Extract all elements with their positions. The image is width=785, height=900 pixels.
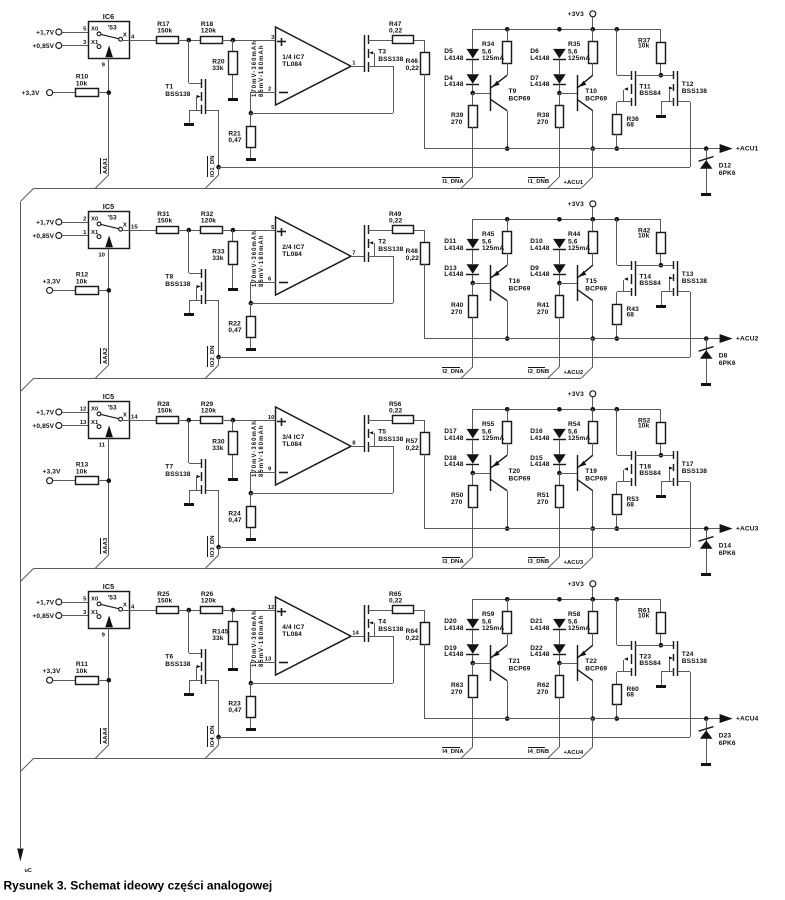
transistor T15 BCP69 [559, 265, 607, 301]
wire +3,3V to R12 [53, 290, 76, 292]
svg-text:0,22: 0,22 [389, 407, 403, 414]
svg-text:R45: R45 [482, 231, 495, 238]
net label AAA3 [101, 537, 109, 554]
net label I4_DNA [442, 748, 464, 755]
wire AAA2 from IC5 pin 10 to bus [96, 248, 109, 378]
svg-text:X: X [123, 33, 127, 39]
svg-text:+1,7V: +1,7V [36, 220, 54, 227]
svg-text:R64: R64 [406, 628, 419, 635]
svg-text:120k: 120k [201, 407, 216, 414]
junction output rail/T9 [505, 146, 510, 151]
transistor T17 BSS138 [661, 451, 707, 495]
IC7 pin numbers [265, 605, 360, 663]
resistor R54 5,6 125mA [568, 409, 598, 455]
junction rail/T14 [615, 217, 620, 222]
svg-text:270: 270 [537, 309, 549, 316]
ground under T13 [656, 305, 666, 308]
svg-text:D12: D12 [719, 163, 732, 170]
wire +ACU3 tap to bus [581, 529, 592, 568]
svg-text:14: 14 [131, 415, 138, 421]
wire X output to R17 [123, 420, 156, 422]
bus arrow to uC [17, 849, 23, 862]
ground under T17 [656, 495, 666, 498]
svg-text:R34: R34 [482, 41, 495, 48]
junction R52/T18/T17 [659, 453, 664, 458]
svg-text:AAA3: AAA3 [103, 537, 109, 554]
transistor T11 BSS84 [617, 29, 662, 114]
wire +0,85V to IC pin X1 [62, 45, 88, 47]
svg-text:TL084: TL084 [282, 631, 302, 638]
wire rail to D5 [472, 29, 474, 49]
junction output rail/T19 [591, 526, 596, 531]
svg-text:0,22: 0,22 [406, 65, 420, 72]
svg-text:BCP69: BCP69 [585, 285, 607, 292]
wire R17 to R18 [178, 610, 200, 612]
junction output rail/R60 [615, 716, 620, 721]
wire R57 to output rail [424, 454, 426, 529]
transistor T18 BSS84 [617, 409, 662, 494]
junction R11 / AAA4 [107, 678, 112, 683]
svg-text:+ACU3: +ACU3 [564, 560, 584, 566]
wire R10 to AAA1 wire [98, 92, 109, 94]
svg-text:I3_DNB: I3_DNB [528, 559, 549, 565]
svg-text:L4148: L4148 [444, 245, 464, 252]
svg-text:68: 68 [627, 692, 635, 699]
svg-text:R41: R41 [537, 302, 550, 309]
junction output rail/D14 [704, 526, 709, 531]
junction D7/T10/R38 [557, 91, 562, 96]
svg-text:125mA: 125mA [482, 435, 504, 442]
resistor R47 0,22 [389, 21, 414, 44]
svg-text:R58: R58 [568, 611, 581, 618]
wire D21 to D22 [559, 630, 561, 644]
svg-text:L4148: L4148 [530, 625, 550, 632]
svg-text:BSS138: BSS138 [165, 91, 190, 98]
svg-text:AAA1: AAA1 [103, 157, 109, 174]
svg-text:I4_DNA: I4_DNA [442, 749, 464, 755]
svg-text:10k: 10k [76, 668, 88, 675]
svg-text:D20: D20 [444, 618, 457, 625]
net label I3_DNA [442, 558, 464, 565]
net +1,7V input terminal [36, 219, 62, 227]
+3V3 rail [473, 219, 661, 221]
net +3V3 terminal [568, 391, 596, 398]
svg-text:R54: R54 [568, 421, 581, 428]
junction D15/T19/R51 [557, 471, 562, 476]
resistor R40 270 [451, 283, 478, 367]
junction output rail/T16 [505, 336, 510, 341]
wire +0,85V to IC pin X1 [62, 425, 88, 427]
junction output rail/T15 [591, 336, 596, 341]
wire T20 collector to rail [507, 491, 509, 529]
net label I1_DNA [442, 178, 464, 185]
svg-text:BSS138: BSS138 [378, 56, 403, 63]
zener diode D23 6PK6 [699, 719, 736, 763]
diode D20 L4148 [444, 618, 479, 632]
wire D5 to D4 [472, 60, 474, 74]
resistor R28 150k [157, 401, 179, 424]
svg-text:BCP69: BCP69 [509, 285, 531, 292]
ground under R20 [228, 98, 238, 101]
svg-text:15: 15 [131, 225, 138, 231]
svg-text:BCP69: BCP69 [509, 475, 531, 482]
svg-text:10: 10 [98, 253, 105, 259]
svg-text:+0,85V: +0,85V [32, 423, 54, 430]
net label 85mV-180mAh [259, 424, 265, 477]
junction R42/T14/T13 [659, 263, 664, 268]
transistor T19 BCP69 [559, 455, 607, 491]
resistor R57 0,22 [406, 433, 430, 455]
resistor R56 0,22 [389, 401, 414, 424]
resistor R23 0,47 [228, 683, 255, 728]
svg-text:+3V3: +3V3 [568, 581, 584, 588]
node IO4_DN [216, 735, 221, 740]
resistor R26 120k [201, 591, 223, 614]
wire T15 collector to rail [592, 301, 594, 339]
svg-text:IC5: IC5 [103, 202, 115, 211]
svg-text:10k: 10k [638, 422, 650, 429]
resistor R36 68 [613, 115, 640, 150]
wire op-amp - input [251, 92, 277, 113]
resistor R45 5,6 125mA [482, 219, 512, 265]
svg-text:D17: D17 [444, 428, 457, 435]
svg-text:+ACU2: +ACU2 [564, 370, 584, 376]
svg-text:10k: 10k [638, 232, 650, 239]
node IO1_DN [216, 165, 221, 170]
svg-text:X: X [123, 603, 127, 609]
resistor R35 5,6 125mA [568, 29, 598, 75]
ground under T1 [184, 123, 194, 126]
svg-text:BSS138: BSS138 [682, 468, 707, 475]
svg-text:0,22: 0,22 [406, 445, 420, 452]
svg-text:'53: '53 [108, 405, 117, 412]
net label IO2_DN [208, 345, 216, 367]
svg-text:T15: T15 [585, 278, 597, 285]
wire D4 to T9 base [472, 85, 474, 93]
resistor R43 68 [613, 305, 640, 340]
junction output rail/D12 [704, 146, 709, 151]
svg-text:BCP69: BCP69 [509, 665, 531, 672]
resistor R55 5,6 125mA [482, 409, 512, 455]
ground under T7 [184, 503, 194, 506]
resistor R44 5,6 125mA [568, 219, 598, 265]
svg-text:270: 270 [537, 119, 549, 126]
ground under R23 [246, 728, 256, 731]
diode D16 L4148 [530, 428, 566, 442]
net label 85mV-180mAh [259, 234, 265, 287]
svg-text:T16: T16 [509, 278, 521, 285]
transistor T2 BSS138 [365, 225, 404, 262]
svg-text:BSS138: BSS138 [682, 658, 707, 665]
svg-text:R48: R48 [406, 248, 419, 255]
svg-text:T3: T3 [378, 49, 386, 56]
svg-text:L4148: L4148 [444, 435, 464, 442]
wire D16 to D15 [559, 440, 561, 454]
svg-text:X: X [123, 413, 127, 419]
wire +ACU1 tap to bus [581, 149, 592, 188]
net +3,3V terminal [43, 668, 61, 683]
svg-text:10: 10 [268, 415, 275, 421]
svg-text:IO2_DN: IO2_DN [210, 345, 216, 367]
bus row 4 [20, 758, 581, 772]
resistor R64 0,22 [406, 623, 430, 645]
svg-text:'53: '53 [108, 595, 117, 602]
svg-text:T20: T20 [509, 468, 521, 475]
resistor R25 150k [157, 591, 179, 614]
wire D7 to T10 base [559, 85, 561, 93]
svg-text:170mV-360mAh: 170mV-360mAh [252, 40, 258, 97]
wire D20 to D19 [472, 630, 474, 644]
transistor T13 BSS138 [661, 261, 707, 305]
svg-text:BCP69: BCP69 [585, 475, 607, 482]
resistor R34 5,6 125mA [482, 29, 512, 75]
diode D10 L4148 [530, 238, 566, 252]
junction rail/+3V3 [591, 27, 596, 32]
svg-text:D16: D16 [530, 428, 543, 435]
svg-text:'53: '53 [108, 215, 117, 222]
net label 170mV-360mAh [252, 40, 258, 97]
wire IO3_DN tap to bus [206, 547, 219, 568]
svg-text:R55: R55 [482, 421, 495, 428]
svg-text:IC5: IC5 [103, 582, 115, 591]
svg-text:T7: T7 [165, 463, 173, 470]
svg-text:BSS138: BSS138 [165, 471, 190, 478]
net label IO4_DN [208, 725, 216, 747]
junction D18/T20/R50 [471, 471, 476, 476]
svg-text:R10: R10 [76, 74, 89, 81]
svg-text:120k: 120k [201, 27, 216, 34]
svg-text:6PK6: 6PK6 [719, 360, 736, 367]
net label AAA4 [101, 727, 109, 744]
svg-text:IC6: IC6 [103, 12, 115, 21]
resistor R46 0,22 [406, 53, 430, 75]
wire T24 gate to IO4_DN [690, 672, 692, 737]
wire AAA1 from IC6 pin 9 to bus [96, 58, 109, 188]
svg-text:L4148: L4148 [530, 55, 550, 62]
svg-text:BSS138: BSS138 [165, 281, 190, 288]
output arrow +ACU3 [720, 524, 759, 533]
zener diode D12 6PK6 [699, 149, 736, 193]
svg-text:T8: T8 [165, 273, 173, 280]
svg-text:IO1_DN: IO1_DN [210, 155, 216, 177]
resistor R62 270 [537, 663, 564, 747]
svg-text:+3,3V: +3,3V [43, 668, 61, 675]
svg-text:0,47: 0,47 [228, 137, 242, 144]
bus row 2 [20, 378, 581, 392]
wire +3V3 to rail [592, 17, 594, 29]
wire T16 collector to rail [507, 301, 509, 339]
wire D18 to T20 base [472, 465, 474, 473]
junction output rail/T21 [505, 716, 510, 721]
ground under R33 [228, 288, 238, 291]
svg-text:+ACU1: +ACU1 [736, 145, 759, 152]
wire op-amp - input [251, 282, 277, 303]
svg-text:+ACU1: +ACU1 [564, 180, 584, 186]
resistor R21 0,47 [228, 113, 255, 158]
transistor T20 BCP69 [473, 443, 531, 491]
svg-text:85mV-180mAh: 85mV-180mAh [259, 424, 265, 477]
svg-text:L4148: L4148 [444, 271, 464, 278]
svg-text:12: 12 [80, 407, 87, 413]
wire I3_DNB tap to bus [548, 557, 559, 568]
resistor R38 270 [537, 93, 564, 177]
svg-text:R57: R57 [406, 438, 419, 445]
resistor R48 0,22 [406, 243, 430, 265]
wire R18 to op-amp + [222, 230, 276, 232]
svg-text:L4148: L4148 [444, 625, 464, 632]
net label +ACU4 on bus tap [564, 750, 584, 756]
svg-text:125mA: 125mA [568, 245, 590, 252]
net +1,7V input terminal [36, 599, 62, 607]
resistor R37 10k [638, 29, 666, 75]
junction feedback / R22 [249, 301, 254, 306]
IC5 pin numbers [83, 597, 135, 639]
svg-text:270: 270 [537, 499, 549, 506]
svg-text:D10: D10 [530, 238, 543, 245]
wire X output to R17 [123, 40, 156, 42]
net +1,7V input terminal [36, 29, 62, 37]
net +0,85V input terminal [32, 233, 61, 241]
svg-text:+0,85V: +0,85V [32, 233, 54, 240]
svg-text:0,47: 0,47 [228, 327, 242, 334]
svg-text:R46: R46 [406, 58, 419, 65]
svg-text:R35: R35 [568, 41, 581, 48]
resistor R50 270 [451, 473, 478, 557]
net label 170mV-360mAh [252, 610, 258, 667]
svg-text:L4148: L4148 [530, 81, 550, 88]
svg-text:0,22: 0,22 [406, 255, 420, 262]
resistor R30 33k [212, 420, 237, 478]
svg-text:+ACU4: +ACU4 [564, 750, 584, 756]
junction feedback / R21 [249, 111, 254, 116]
wire D9 to T15 base [559, 275, 561, 283]
wire T8 gate to IO2_DN node [218, 300, 220, 357]
IC7 pin numbers [268, 35, 356, 93]
diode D5 L4148 [444, 48, 479, 62]
op-amp IC7 4/4 IC7 TL084 [276, 597, 352, 675]
svg-text:85mV-180mAh: 85mV-180mAh [259, 614, 265, 667]
svg-text:125mA: 125mA [568, 435, 590, 442]
ground under R22 [246, 348, 256, 351]
svg-text:T19: T19 [585, 468, 597, 475]
bus row 3 [20, 568, 581, 582]
svg-text:14: 14 [352, 631, 359, 637]
resistor R145 33k [212, 610, 237, 668]
IC5 pin numbers [83, 217, 138, 259]
diode D4 L4148 [444, 74, 479, 88]
junction R18/R20 [231, 228, 236, 233]
svg-text:T10: T10 [585, 88, 597, 95]
svg-text:+ACU2: +ACU2 [736, 335, 759, 342]
wire D15 to T19 base [559, 465, 561, 473]
wire IO2_DN tap to bus [206, 357, 219, 378]
wire I2_DNB tap to bus [548, 367, 559, 378]
resistor R39 270 [451, 93, 478, 177]
svg-text:D6: D6 [530, 48, 539, 55]
junction R12 / AAA2 [107, 288, 112, 293]
bus row 1 [20, 188, 581, 202]
svg-text:T6: T6 [165, 653, 173, 660]
output rail +ACU3 [425, 528, 720, 530]
transistor T1 BSS138 [165, 40, 219, 123]
wire T10 collector to rail [592, 111, 594, 149]
wire feedback to inverting input [251, 636, 394, 684]
svg-text:85mV-180mAh: 85mV-180mAh [259, 234, 265, 287]
svg-text:Rysunek 3. Schemat ideowy częś: Rysunek 3. Schemat ideowy części analogo… [4, 878, 273, 892]
svg-text:125mA: 125mA [482, 55, 504, 62]
svg-text:L4148: L4148 [530, 651, 550, 658]
wire D13 to T16 base [472, 275, 474, 283]
junction D22/T22/R62 [557, 661, 562, 666]
wire I1_DNA tap to bus [461, 177, 472, 188]
output arrow +ACU2 [720, 334, 759, 343]
svg-text:I2_DNA: I2_DNA [442, 369, 464, 375]
transistor T10 BCP69 [559, 75, 607, 111]
svg-text:T9: T9 [509, 88, 517, 95]
bus to microcontroller [20, 202, 22, 848]
svg-text:T2: T2 [378, 239, 386, 246]
output arrow +ACU4 [720, 714, 759, 723]
svg-text:10k: 10k [76, 469, 88, 476]
svg-text:L4148: L4148 [530, 461, 550, 468]
wire I4_DNA tap to bus [461, 747, 472, 758]
svg-text:0,22: 0,22 [389, 597, 403, 604]
net label IO3_DN [208, 535, 216, 557]
svg-text:R39: R39 [451, 112, 464, 119]
analog switch IC6 [89, 12, 130, 58]
ground under R30 [228, 478, 238, 481]
wire IO1_DN to T12 gate [219, 167, 690, 169]
wire +3V3 to rail [592, 587, 594, 599]
transistor T3 BSS138 [365, 35, 404, 72]
svg-text:+3,3V: +3,3V [21, 90, 39, 97]
net +3,3V terminal [21, 90, 52, 97]
svg-text:68: 68 [627, 502, 635, 509]
junction D13/T16/R40 [471, 281, 476, 286]
svg-text:10k: 10k [76, 81, 88, 88]
junction rail/T18 [615, 407, 620, 412]
svg-text:170mV-360mAh: 170mV-360mAh [252, 230, 258, 287]
net label 170mV-360mAh [252, 420, 258, 477]
svg-text:170mV-360mAh: 170mV-360mAh [252, 610, 258, 667]
svg-text:270: 270 [451, 119, 463, 126]
net label +ACU3 on bus tap [564, 560, 584, 566]
net +3V3 terminal [568, 201, 596, 208]
resistor R65 0,22 [389, 591, 414, 614]
svg-text:R62: R62 [537, 682, 550, 689]
wire R56 to R57 [414, 420, 425, 432]
junction R18/R20 [231, 418, 236, 423]
ground under D23 [701, 763, 711, 766]
wire +3,3V to R11 [53, 680, 76, 682]
junction output rail/R36 [615, 146, 620, 151]
node IO3_DN [216, 545, 221, 550]
svg-text:D5: D5 [444, 48, 453, 55]
wire +ACU4 tap to bus [581, 719, 592, 758]
wire I2_DNA tap to bus [461, 367, 472, 378]
svg-text:R12: R12 [76, 271, 89, 278]
svg-text:11: 11 [99, 443, 106, 449]
output rail +ACU4 [425, 718, 720, 720]
wire T1 gate to IO1_DN node [218, 110, 220, 167]
net label IO1_DN [208, 155, 216, 177]
svg-text:BSS84: BSS84 [639, 280, 661, 287]
svg-text:I1_DNA: I1_DNA [442, 179, 464, 185]
wire op-amp output to T5 gate [351, 446, 364, 448]
+3V3 rail [473, 29, 661, 31]
wire R12 to AAA2 wire [98, 290, 109, 292]
svg-text:BSS138: BSS138 [682, 278, 707, 285]
